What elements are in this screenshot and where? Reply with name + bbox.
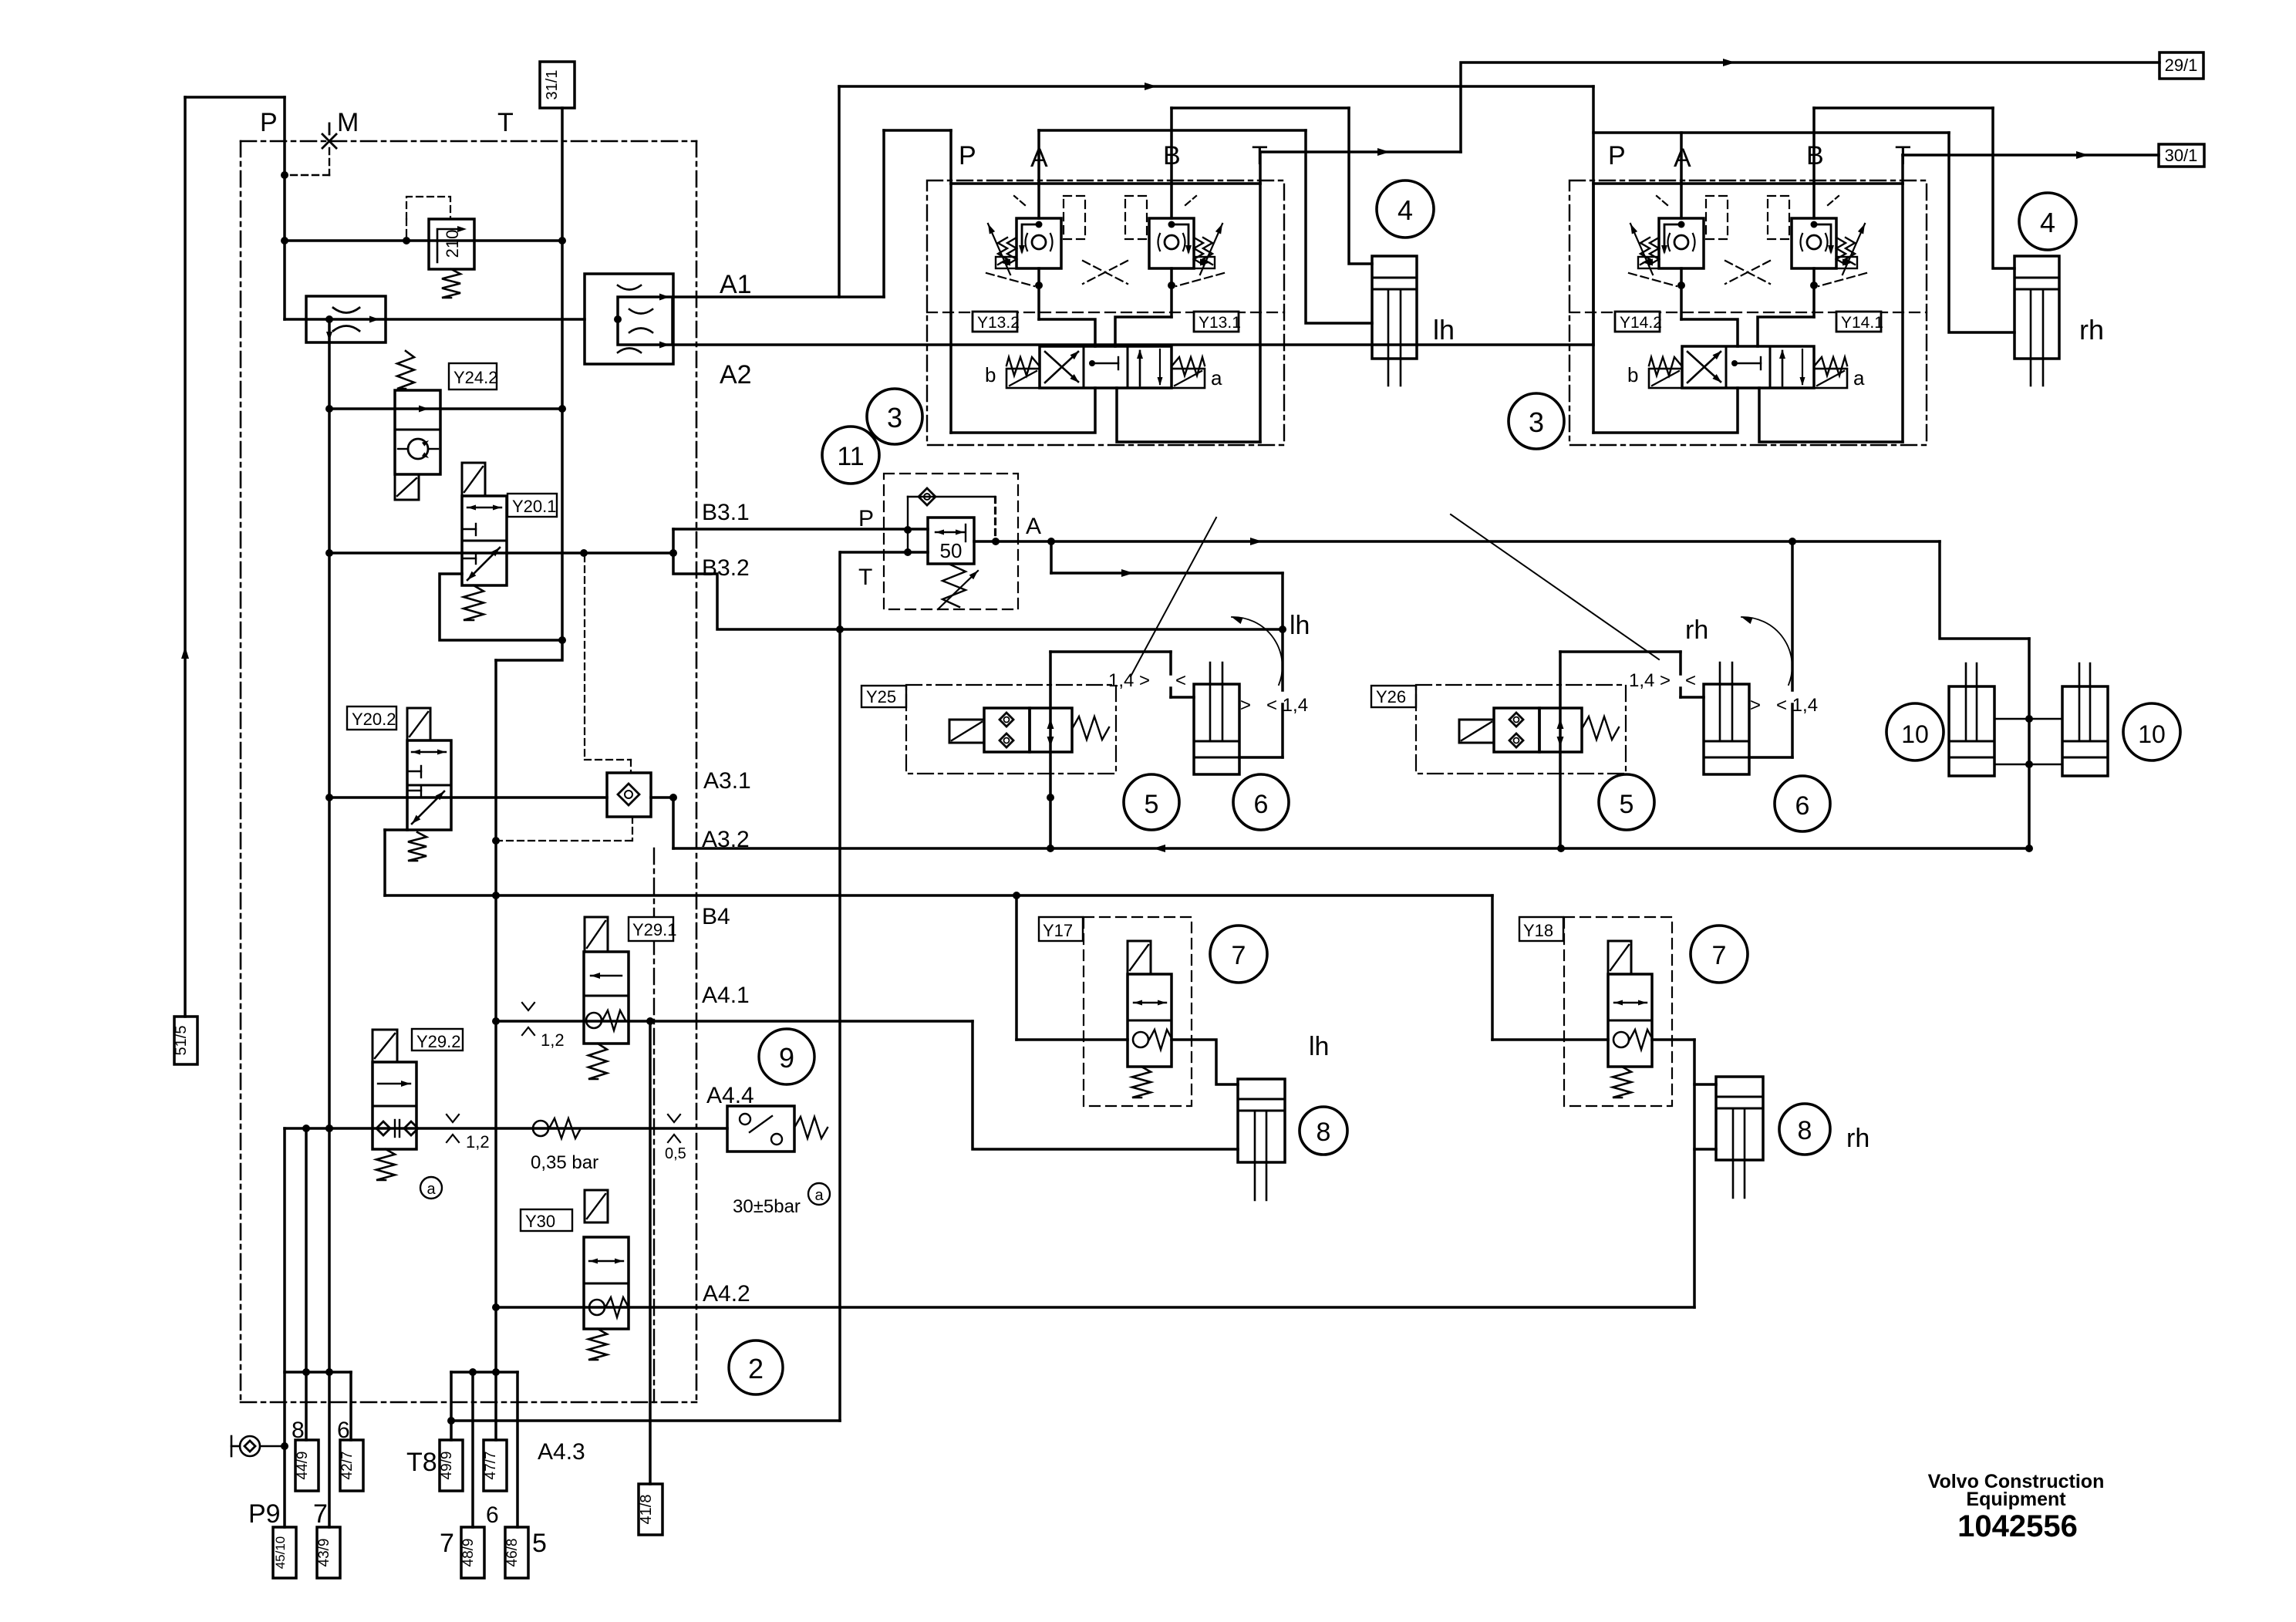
svg-text:T: T xyxy=(858,565,872,590)
svg-text:a: a xyxy=(814,1187,824,1204)
svg-text:rh: rh xyxy=(1685,615,1708,645)
svg-text:A4.2: A4.2 xyxy=(703,1281,750,1307)
svg-text:M: M xyxy=(337,108,359,137)
svg-text:1,2: 1,2 xyxy=(466,1132,490,1152)
svg-text:A2: A2 xyxy=(720,360,752,389)
svg-text:29/1: 29/1 xyxy=(2165,56,2198,75)
svg-text:1,2: 1,2 xyxy=(541,1030,565,1050)
svg-text:>: > xyxy=(1240,695,1251,716)
svg-text:lh: lh xyxy=(1290,611,1310,640)
svg-text:Y29.1: Y29.1 xyxy=(632,920,677,939)
svg-text:Y13.2: Y13.2 xyxy=(977,314,1020,332)
svg-text:Y26: Y26 xyxy=(1376,687,1406,706)
svg-text:9: 9 xyxy=(779,1042,794,1074)
svg-text:47/7: 47/7 xyxy=(483,1452,499,1480)
svg-text:Equipment: Equipment xyxy=(1966,1489,2066,1510)
svg-text:Y17: Y17 xyxy=(1043,921,1073,940)
svg-text:P: P xyxy=(858,506,874,531)
svg-text:5: 5 xyxy=(532,1529,547,1558)
svg-text:A4.3: A4.3 xyxy=(538,1439,585,1465)
svg-text:41/8: 41/8 xyxy=(638,1495,655,1525)
svg-text:10: 10 xyxy=(1901,720,1929,748)
svg-text:7: 7 xyxy=(1232,941,1246,970)
svg-text:4: 4 xyxy=(2040,207,2055,238)
svg-text:P: P xyxy=(959,141,976,170)
svg-text:5: 5 xyxy=(1145,790,1159,819)
svg-text:8: 8 xyxy=(1798,1116,1812,1145)
svg-text:8: 8 xyxy=(1317,1118,1331,1147)
svg-text:4: 4 xyxy=(1397,194,1413,226)
svg-text:Y29.2: Y29.2 xyxy=(416,1032,461,1051)
svg-text:< 1,4: < 1,4 xyxy=(1266,695,1308,716)
svg-text:Y18: Y18 xyxy=(1523,921,1553,940)
svg-text:A1: A1 xyxy=(720,270,752,299)
svg-text:A3.1: A3.1 xyxy=(703,768,751,794)
svg-text:31/1: 31/1 xyxy=(544,70,561,100)
svg-text:<: < xyxy=(1175,670,1186,691)
svg-text:30±5bar: 30±5bar xyxy=(733,1196,801,1217)
svg-text:B4: B4 xyxy=(702,904,730,929)
svg-text:5: 5 xyxy=(1620,790,1634,819)
svg-text:30/1: 30/1 xyxy=(2165,146,2198,165)
svg-text:6: 6 xyxy=(1795,791,1810,821)
svg-text:44/9: 44/9 xyxy=(295,1452,311,1480)
svg-text:1042556: 1042556 xyxy=(1957,1509,2078,1543)
svg-text:a: a xyxy=(426,1181,436,1198)
svg-text:1,4 >: 1,4 > xyxy=(1108,670,1150,691)
svg-text:Y14.1: Y14.1 xyxy=(1841,314,1883,332)
svg-text:b: b xyxy=(1627,363,1638,386)
svg-text:45/10: 45/10 xyxy=(273,1536,288,1570)
svg-text:A4.4: A4.4 xyxy=(706,1083,754,1108)
svg-text:6: 6 xyxy=(486,1502,499,1528)
svg-text:46/8: 46/8 xyxy=(504,1539,521,1567)
svg-text:P: P xyxy=(1608,141,1626,170)
svg-text:7: 7 xyxy=(440,1529,454,1558)
svg-text:48/9: 48/9 xyxy=(460,1539,477,1567)
svg-text:50: 50 xyxy=(940,539,963,562)
svg-text:A4.1: A4.1 xyxy=(702,983,750,1008)
svg-text:P: P xyxy=(260,108,278,137)
svg-text:Y25: Y25 xyxy=(866,687,896,706)
svg-text:1,4 >: 1,4 > xyxy=(1629,670,1671,691)
svg-text:Y14.2: Y14.2 xyxy=(1620,314,1662,332)
svg-text:rh: rh xyxy=(2079,314,2104,346)
svg-text:B3.2: B3.2 xyxy=(702,555,750,581)
svg-text:6: 6 xyxy=(1254,790,1269,819)
svg-text:a: a xyxy=(1211,366,1222,389)
svg-text:b: b xyxy=(985,363,996,386)
svg-text:lh: lh xyxy=(1433,314,1455,346)
svg-text:A: A xyxy=(1026,514,1041,539)
svg-text:0,35 bar: 0,35 bar xyxy=(531,1152,598,1173)
svg-text:7: 7 xyxy=(313,1499,328,1529)
svg-text:P9: P9 xyxy=(248,1499,281,1529)
svg-text:Y13.1: Y13.1 xyxy=(1199,314,1241,332)
svg-text:0,5: 0,5 xyxy=(665,1145,686,1162)
svg-text:210: 210 xyxy=(443,230,462,258)
svg-text:< 1,4: < 1,4 xyxy=(1776,695,1818,716)
svg-text:Y30: Y30 xyxy=(525,1212,555,1231)
svg-text:51/5: 51/5 xyxy=(173,1026,190,1056)
svg-text:<: < xyxy=(1685,670,1696,691)
svg-text:2: 2 xyxy=(748,1353,764,1384)
svg-text:rh: rh xyxy=(1846,1124,1870,1153)
svg-text:Y20.2: Y20.2 xyxy=(352,710,396,729)
svg-text:42/7: 42/7 xyxy=(339,1452,356,1480)
svg-text:43/9: 43/9 xyxy=(316,1539,332,1567)
svg-text:10: 10 xyxy=(2138,720,2166,748)
svg-text:T8: T8 xyxy=(406,1448,437,1477)
svg-text:49/9: 49/9 xyxy=(439,1452,455,1480)
svg-text:7: 7 xyxy=(1712,941,1727,970)
svg-text:Y24.2: Y24.2 xyxy=(453,368,498,387)
svg-text:A3.2: A3.2 xyxy=(702,827,750,852)
svg-text:11: 11 xyxy=(837,442,864,471)
svg-text:lh: lh xyxy=(1309,1032,1329,1061)
svg-text:T: T xyxy=(497,108,514,137)
svg-text:3: 3 xyxy=(887,402,902,433)
svg-text:Y20.1: Y20.1 xyxy=(512,497,557,516)
svg-text:3: 3 xyxy=(1529,406,1544,438)
svg-text:a: a xyxy=(1853,366,1865,389)
svg-text:B3.1: B3.1 xyxy=(702,500,750,525)
svg-text:>: > xyxy=(1750,695,1761,716)
